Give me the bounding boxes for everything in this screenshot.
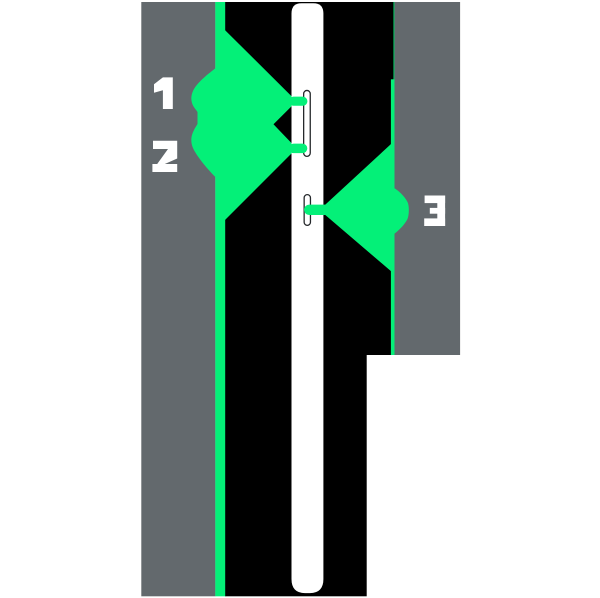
right thin green hairline upper bbox=[393, 2, 394, 80]
arrow 3 tail bulge bbox=[392, 186, 409, 235]
arrow 3 (stub + head) bbox=[304, 141, 394, 273]
left gray backdrop column bbox=[141, 2, 215, 596]
label 2 digit bbox=[152, 141, 177, 172]
left green stripe bbox=[215, 2, 226, 596]
right gray backdrop bbox=[395, 2, 461, 355]
label 1 digit bbox=[154, 77, 173, 109]
arrow 2 stub bbox=[289, 144, 307, 154]
arrow 1 head and arrow 2 head (merged chevrons) bbox=[223, 28, 297, 222]
power button outline bbox=[304, 195, 310, 226]
black band bbox=[225, 2, 367, 596]
phone side bar bbox=[292, 3, 324, 593]
volume rocker button outline bbox=[304, 90, 311, 156]
arrow 1/2 tail bulges bbox=[191, 67, 217, 179]
label 3 digit bbox=[424, 196, 445, 227]
black upper-right extension bbox=[360, 2, 395, 355]
right green stripe bbox=[391, 79, 395, 355]
arrow 1 stub bbox=[289, 97, 308, 106]
